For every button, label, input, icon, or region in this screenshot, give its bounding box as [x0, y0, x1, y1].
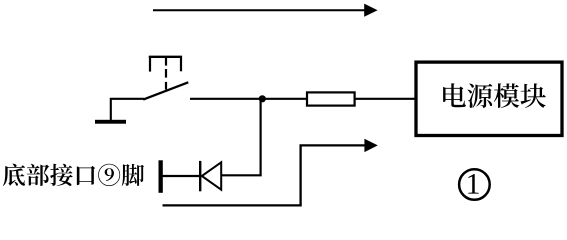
figure number ① (circled 1): [459, 169, 490, 200]
wire (ground to switch pole): [111, 99, 144, 121]
switch S (moving contact lever): [143, 82, 188, 99]
label 电源模块: [443, 83, 546, 108]
flow arrow (top signal-flow arrow): [153, 4, 378, 17]
switch manual actuator symbol: [149, 56, 182, 90]
wire (diode cathode to terminal bar): [162, 175, 200, 177]
terminal bar (底部接口 pin 9 connection): [159, 160, 163, 193]
wire (junction down and left to diode anode): [221, 99, 261, 175]
wire (resistor to power module): [355, 98, 416, 100]
node (junction dot): [259, 95, 266, 102]
ground: [95, 120, 126, 124]
power module block U (电源模块): [416, 62, 562, 135]
resistor R (rectangular body): [307, 92, 355, 105]
diode D (anode right, cathode left): [200, 161, 221, 191]
wire (switch fixed contact to resistor): [190, 98, 307, 100]
label 底部接口⑨脚: [3, 164, 144, 186]
flow arrow (bottom L-shaped signal-flow arrow): [163, 139, 378, 206]
